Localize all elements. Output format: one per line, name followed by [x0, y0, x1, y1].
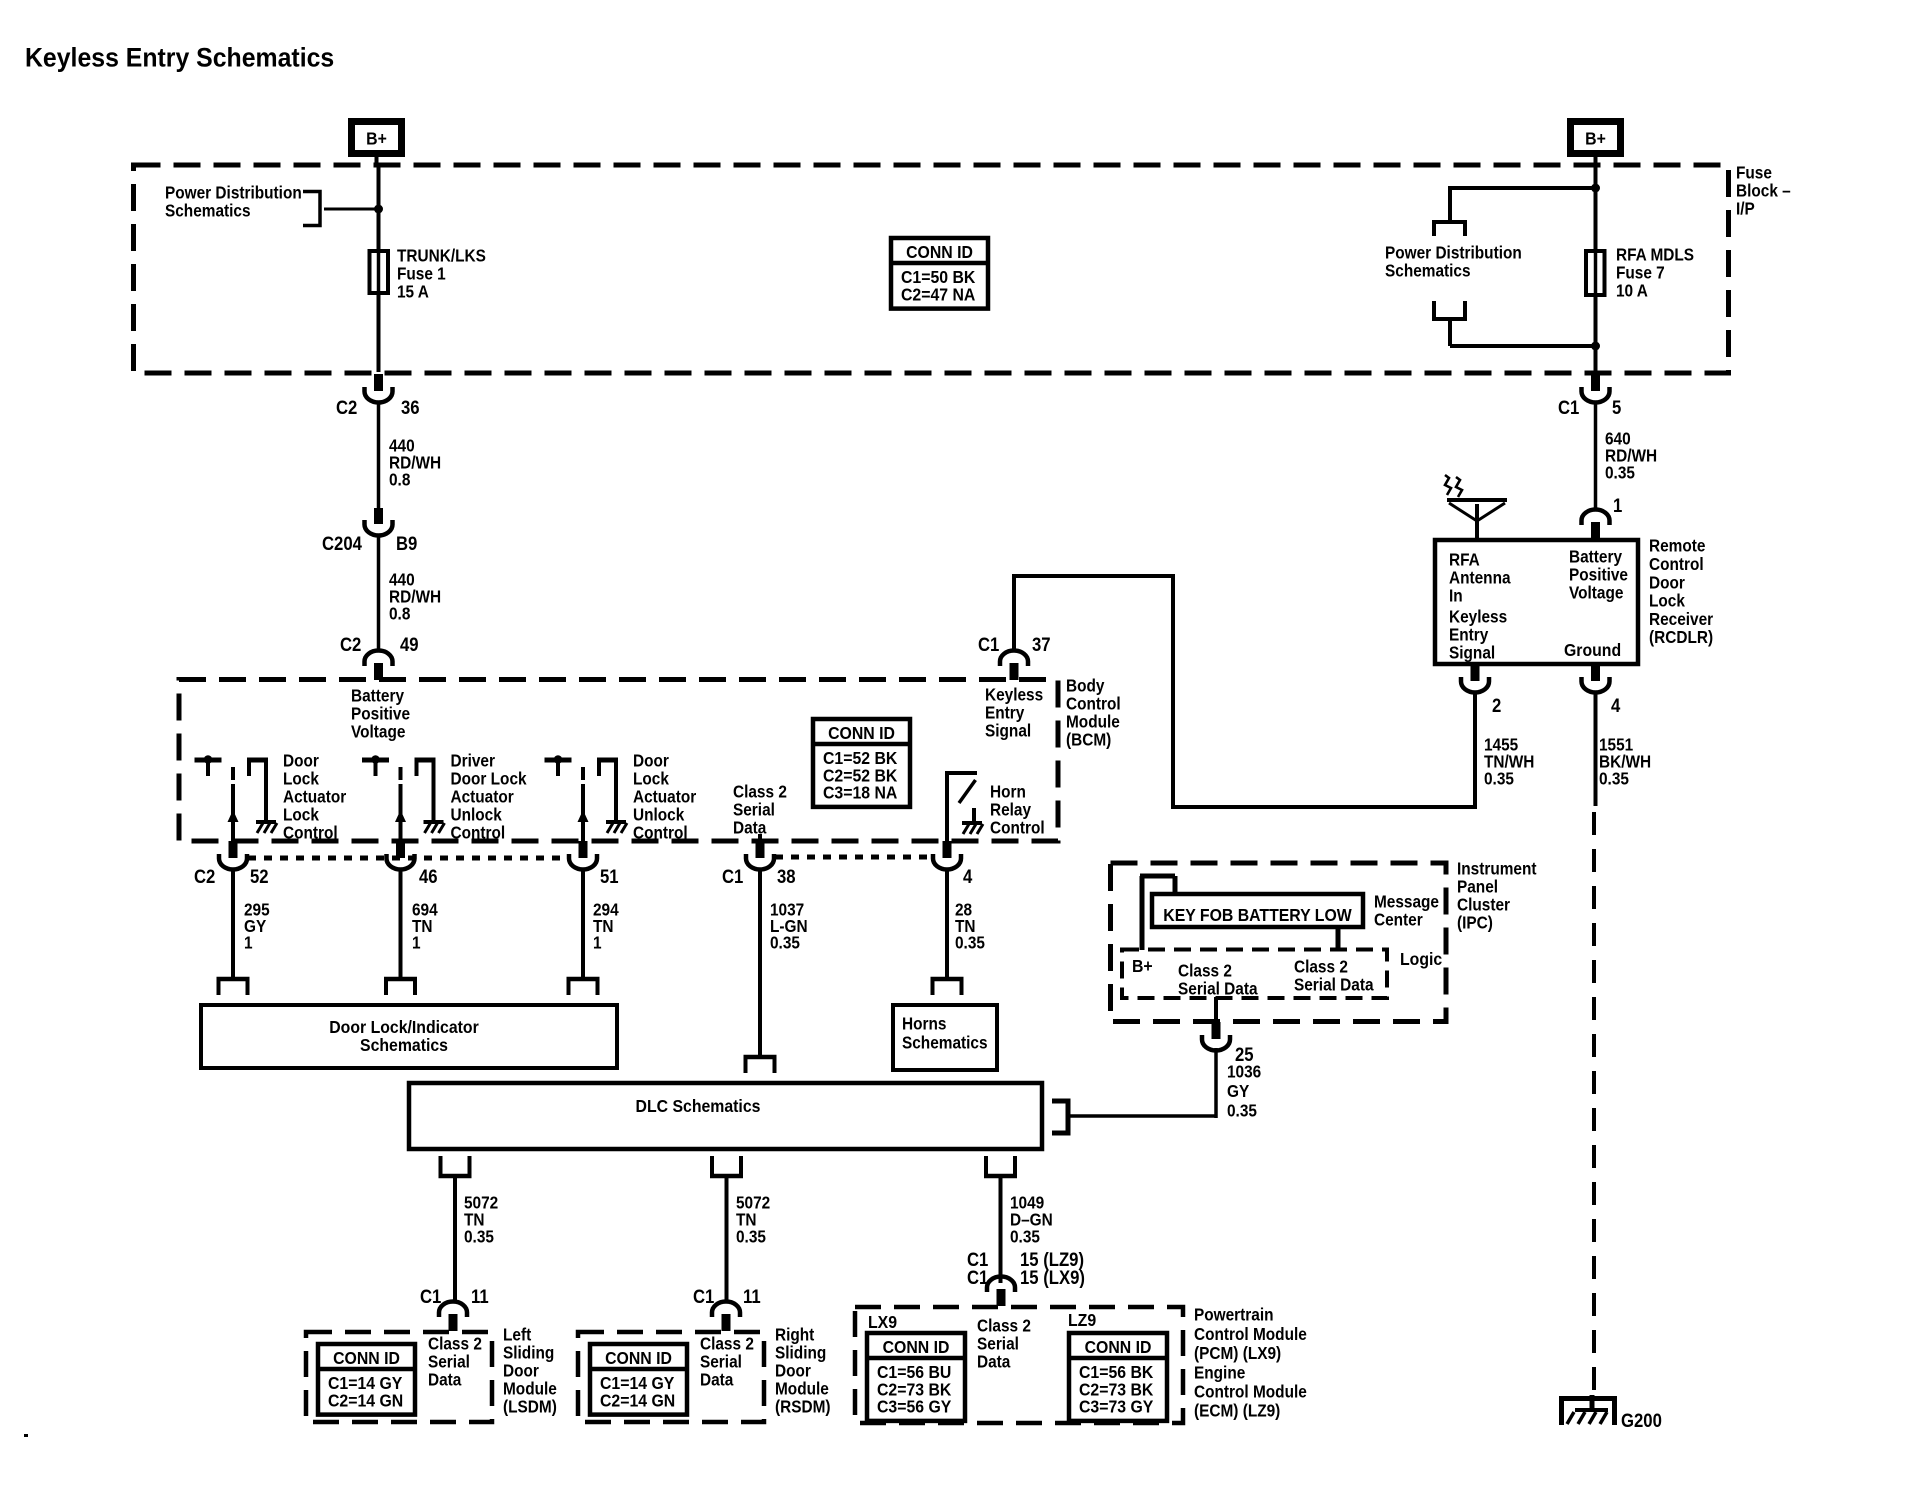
svg-text:4: 4	[1611, 695, 1620, 716]
label: 640 RD/WH 0.35	[1605, 430, 1631, 449]
label: Class 2 Serial Data (IPC left)	[1178, 962, 1232, 981]
CONN ID table: PCM LZ9	[1069, 1333, 1167, 1421]
svg-text:Signal: Signal	[985, 722, 1031, 741]
connector C1 pin 37 (BCM keyless entry signal)	[1010, 663, 1019, 680]
svg-text:Block –: Block –	[1736, 182, 1791, 201]
svg-text:1036: 1036	[1227, 1063, 1261, 1082]
svg-text:Instrument: Instrument	[1457, 860, 1537, 879]
svg-text:Voltage: Voltage	[1569, 584, 1623, 603]
title: Keyless Entry Schematics	[25, 44, 334, 73]
svg-text:C3=56 GY: C3=56 GY	[877, 1397, 952, 1417]
svg-text:GY: GY	[1227, 1082, 1249, 1101]
wire: B+ right to fuse block	[1594, 155, 1598, 167]
wire 1036 GY 0.35 horizontal run	[1070, 1114, 1216, 1118]
horn relay control switch (internal, pin 4)	[945, 771, 949, 842]
wire: IPC class 2 serial data down	[1214, 997, 1218, 1022]
label: 1455 TN/WH 0.35	[1484, 736, 1518, 755]
wire: branch from power distribution (right) lower	[1448, 319, 1452, 346]
svg-text:Logic: Logic	[1400, 949, 1442, 969]
svg-text:0.35: 0.35	[1010, 1228, 1040, 1247]
svg-text:1: 1	[1613, 495, 1622, 516]
svg-text:C1: C1	[722, 866, 743, 887]
svg-text:Entry: Entry	[1449, 626, 1489, 645]
CONN ID table: RSDM	[590, 1344, 687, 1415]
CONN ID table: fuse block (C1=50 BK / C2=47 NA)	[891, 238, 988, 309]
door lock actuator lock control driver (internal, pin 52)	[195, 758, 222, 763]
wire: branch to power distribution (right) upper	[1450, 186, 1596, 190]
svg-text:Door: Door	[283, 752, 319, 771]
svg-text:Class 2: Class 2	[1294, 958, 1348, 977]
svg-text:C1: C1	[420, 1286, 441, 1307]
svg-text:Lock: Lock	[283, 770, 320, 789]
connector C2 pin 52 (BCM)	[229, 841, 238, 858]
connector C1 boundary dotted line	[775, 855, 930, 860]
wire: fuse 7 to fuse block edge	[1594, 295, 1598, 372]
PCM/ECM dashed boundary box	[855, 1307, 1183, 1423]
svg-text:46: 46	[419, 866, 438, 887]
connector C1 pin 5 (fuse block output right)	[1591, 374, 1600, 391]
RSDM dashed boundary box	[578, 1332, 764, 1422]
Door Lock/Indicator Schematics reference box	[201, 1005, 617, 1068]
label: Class 2 Serial Data (PCM)	[977, 1317, 1031, 1336]
svg-text:Actuator: Actuator	[450, 788, 514, 807]
Instrument Panel Cluster dashed boundary box	[1111, 863, 1447, 1022]
door lock actuator unlock control driver (internal, pin 51)	[545, 758, 572, 763]
svg-text:Fuse 1: Fuse 1	[397, 265, 446, 284]
svg-text:(RCDLR): (RCDLR)	[1649, 628, 1713, 647]
svg-text:Schematics: Schematics	[360, 1035, 448, 1055]
svg-text:0.35: 0.35	[736, 1228, 766, 1247]
Fuse Block - I/P dashed boundary box	[134, 165, 1729, 373]
svg-text:C1: C1	[967, 1267, 988, 1288]
svg-text:37: 37	[1032, 634, 1051, 655]
svg-text:(RSDM): (RSDM)	[775, 1398, 831, 1417]
message center display box KEY FOB BATTERY LOW	[1152, 894, 1363, 927]
node: junction dot on left B+ feed	[374, 205, 383, 214]
svg-text:Control: Control	[1649, 555, 1704, 574]
svg-text:Actuator: Actuator	[283, 788, 347, 807]
wire 640 RD/WH 0.35	[1594, 404, 1598, 510]
radio wave squiggles	[1445, 475, 1451, 495]
label: 28 TN 0.35	[955, 901, 972, 920]
svg-text:Data: Data	[733, 819, 767, 838]
svg-text:Serial Data: Serial Data	[1178, 980, 1258, 999]
label: Class 2 Serial Data (RSDM)	[700, 1335, 754, 1354]
label: 440 RD/WH 0.8 (lower)	[389, 571, 415, 590]
svg-text:Fuse: Fuse	[1736, 164, 1772, 183]
BCM Body Control Module dashed boundary box	[179, 680, 1058, 842]
connector pin 4 (RCDLR ground)	[1591, 664, 1600, 681]
connector C1 pin 38 (BCM)	[756, 841, 765, 858]
svg-text:CONN ID: CONN ID	[828, 723, 895, 743]
svg-text:Ground: Ground	[1564, 640, 1621, 660]
svg-text:C3=18 NA: C3=18 NA	[823, 783, 897, 803]
svg-text:KEY FOB BATTERY LOW: KEY FOB BATTERY LOW	[1163, 905, 1351, 925]
connector C204 pin B9 (inline)	[374, 508, 383, 524]
wire: B+ left to fuse block	[375, 155, 379, 167]
label: Body Control Module (BCM)	[1066, 677, 1105, 696]
svg-text:Control: Control	[633, 824, 688, 843]
svg-text:(IPC): (IPC)	[1457, 914, 1493, 933]
svg-text:C2=14 GN: C2=14 GN	[600, 1390, 675, 1410]
svg-text:Control: Control	[450, 824, 505, 843]
wire 28 TN 0.35 from pin 4	[945, 871, 949, 979]
wire 5072 TN 0.35 (right) from DLC	[710, 1174, 743, 1179]
wire: stub to power distribution bracket (left)	[324, 208, 379, 211]
label: Keyless Entry Signal (BCM)	[985, 686, 1043, 705]
svg-text:B+: B+	[1585, 129, 1606, 149]
svg-text:Voltage: Voltage	[351, 723, 405, 742]
svg-text:Control: Control	[1066, 695, 1121, 714]
svg-text:Data: Data	[977, 1353, 1011, 1372]
off-page bracket into Door Lock box (wire 694)	[384, 977, 417, 982]
svg-text:Serial: Serial	[733, 801, 775, 820]
CONN ID table: BCM (C1=52 BK / C2=52 BK / C3=18 NA)	[813, 719, 910, 807]
svg-text:Module: Module	[1066, 713, 1120, 732]
svg-text:B+: B+	[366, 129, 387, 149]
svg-text:38: 38	[777, 866, 796, 887]
svg-text:Powertrain: Powertrain	[1194, 1306, 1274, 1325]
label: B+ (IPC)	[1132, 956, 1153, 976]
svg-text:Sliding: Sliding	[775, 1344, 826, 1363]
label: Power Distribution Schematics (left)	[165, 184, 302, 203]
wire 1049 D-GN 0.35 from DLC	[984, 1174, 1017, 1179]
svg-text:Class 2: Class 2	[733, 783, 787, 802]
svg-text:TRUNK/LKS: TRUNK/LKS	[397, 247, 486, 266]
connector pin 46 (BCM)	[396, 841, 405, 858]
svg-text:Door Lock: Door Lock	[450, 770, 527, 789]
connector C2 pin 36 (fuse block output)	[374, 374, 383, 391]
DLC Schematics reference box	[409, 1083, 1042, 1149]
label: Instrument Panel Cluster (IPC)	[1457, 860, 1537, 879]
LSDM dashed boundary box	[306, 1332, 492, 1422]
svg-text:(ECM) (LZ9): (ECM) (LZ9)	[1194, 1402, 1280, 1421]
svg-text:(BCM): (BCM)	[1066, 731, 1111, 750]
svg-text:Door: Door	[775, 1362, 811, 1381]
B+ battery positive terminal (left)	[352, 122, 402, 154]
svg-text:Door: Door	[503, 1362, 539, 1381]
svg-text:Control Module: Control Module	[1194, 1383, 1307, 1402]
svg-text:Class 2: Class 2	[700, 1335, 754, 1354]
connector pin 2 (RCDLR keyless entry signal)	[1471, 664, 1480, 681]
label: Class 2 Serial Data (BCM pin 38)	[733, 783, 787, 802]
label: LZ9	[1068, 1310, 1096, 1330]
svg-text:Remote: Remote	[1649, 537, 1705, 556]
svg-text:C2: C2	[336, 397, 357, 418]
svg-text:52: 52	[250, 866, 269, 887]
svg-text:C204: C204	[322, 533, 362, 554]
antenna symbol on RCDLR	[1475, 504, 1479, 538]
svg-text:Lock: Lock	[633, 770, 670, 789]
svg-text:Battery: Battery	[1569, 548, 1623, 567]
connector pin 51 (BCM)	[579, 841, 588, 858]
wire: IPC B+ feed to message center	[1140, 876, 1145, 950]
svg-text:Lock: Lock	[1649, 592, 1686, 611]
door lock actuator unlock control driver (internal, pin 46)	[362, 758, 389, 763]
svg-text:0.35: 0.35	[1227, 1102, 1257, 1121]
wire 440 RD/WH 0.8 (upper)	[377, 404, 381, 508]
label: 694 TN 1	[412, 901, 438, 920]
wire 694 TN 1 from pin 46	[399, 871, 403, 979]
label: Class 2 Serial Data (IPC right)	[1294, 958, 1348, 977]
svg-text:Battery: Battery	[351, 687, 405, 706]
B+ battery positive terminal (right)	[1571, 122, 1621, 154]
svg-text:Module: Module	[503, 1380, 557, 1399]
svg-text:LZ9: LZ9	[1068, 1310, 1096, 1330]
off-page bracket into Door Lock box (wire 295)	[217, 977, 250, 982]
CONN ID table: PCM LX9	[867, 1333, 965, 1421]
wire 440 RD/WH 0.8 (lower)	[377, 537, 381, 650]
connector C1 pin 11 (LSDM)	[449, 1314, 458, 1331]
svg-text:Right: Right	[775, 1326, 815, 1345]
label: Battery Positive Voltage / Ground (RCDLR pins)	[1569, 548, 1623, 567]
svg-text:15 (LX9): 15 (LX9)	[1020, 1267, 1085, 1288]
label: LX9	[868, 1312, 897, 1332]
wire: keyless entry signal BCM pin 37 to RCDLR pin 2	[1012, 576, 1016, 650]
label: RFA MDLS Fuse 7 10 A	[1616, 246, 1694, 265]
svg-text:Class 2: Class 2	[1178, 962, 1232, 981]
svg-text:Keyless: Keyless	[985, 686, 1043, 705]
svg-text:LX9: LX9	[868, 1312, 897, 1332]
label: Fuse Block - I/P	[1736, 164, 1772, 183]
wire 1037 L-GN 0.35 from pin 38	[758, 871, 762, 1059]
svg-text:Antenna: Antenna	[1449, 569, 1511, 588]
svg-text:Door: Door	[633, 752, 669, 771]
svg-text:Lock: Lock	[283, 806, 320, 825]
svg-text:Power Distribution: Power Distribution	[1385, 244, 1522, 263]
svg-text:Schematics: Schematics	[902, 1034, 988, 1053]
svg-text:(LSDM): (LSDM)	[503, 1398, 557, 1417]
svg-text:Engine: Engine	[1194, 1363, 1245, 1382]
label: Left Sliding Door Module (LSDM)	[503, 1326, 532, 1345]
label: Logic	[1400, 949, 1442, 969]
svg-text:Center: Center	[1374, 911, 1423, 930]
svg-text:Schematics: Schematics	[1385, 262, 1471, 281]
RCDLR module box	[1435, 540, 1638, 664]
off-page bracket: power distribution upper (right)	[1434, 222, 1465, 236]
svg-text:51: 51	[600, 866, 619, 887]
ground G200 symbol	[1562, 1399, 1615, 1426]
fuse F7 RFA MDLS 10A	[1586, 251, 1605, 295]
svg-text:Schematics: Schematics	[165, 202, 251, 221]
wire 1455 TN/WH 0.35 from RCDLR pin 2	[1473, 694, 1477, 809]
svg-text:C2=14 GN: C2=14 GN	[328, 1390, 403, 1410]
label: 5072 TN 0.35 (right)	[736, 1194, 770, 1213]
Horns Schematics reference box	[893, 1005, 997, 1070]
svg-text:Left: Left	[503, 1326, 532, 1345]
svg-text:15 A: 15 A	[397, 283, 429, 302]
off-page bracket into Horns box (wire 28)	[931, 977, 964, 982]
connector pin 1 (RCDLR battery positive)	[1591, 522, 1600, 539]
svg-text:CONN ID: CONN ID	[906, 242, 973, 262]
label: G200	[1621, 1410, 1662, 1431]
svg-text:Class 2: Class 2	[977, 1317, 1031, 1336]
svg-text:Serial: Serial	[977, 1335, 1019, 1354]
node: junction dot lower on right B+ feed	[1591, 342, 1600, 351]
node: junction dot upper on right B+ feed	[1591, 184, 1600, 193]
svg-text:Data: Data	[428, 1371, 462, 1390]
svg-text:C1: C1	[1558, 397, 1579, 418]
svg-text:10 A: 10 A	[1616, 282, 1648, 301]
svg-text:Receiver: Receiver	[1649, 610, 1714, 629]
connector C1 pin 15 (PCM/ECM)	[997, 1289, 1006, 1306]
label: 440 RD/WH 0.8 (upper)	[389, 437, 415, 456]
svg-text:Horns: Horns	[902, 1015, 946, 1034]
svg-text:CONN ID: CONN ID	[605, 1348, 672, 1368]
svg-text:RFA: RFA	[1449, 551, 1480, 570]
wire: message center to logic	[1336, 927, 1341, 950]
svg-text:1: 1	[593, 933, 602, 952]
label: Class 2 Serial Data (LSDM)	[428, 1335, 482, 1354]
svg-text:Control: Control	[990, 819, 1045, 838]
wire 294 TN 1 from pin 51	[581, 871, 585, 979]
svg-text:C2=47 NA: C2=47 NA	[901, 284, 975, 304]
svg-text:Positive: Positive	[351, 705, 410, 724]
label: 1037 L-GN 0.35	[770, 901, 804, 920]
svg-text:Cluster: Cluster	[1457, 896, 1511, 915]
svg-text:Control: Control	[283, 824, 338, 843]
svg-text:Fuse 7: Fuse 7	[1616, 264, 1665, 283]
svg-text:5: 5	[1612, 397, 1621, 418]
label: RFA Antenna In / Keyless Entry Signal (RCDLR pins)	[1449, 551, 1480, 570]
label: 1036 GY 0.35	[1235, 1044, 1254, 1065]
svg-text:RFA MDLS: RFA MDLS	[1616, 246, 1694, 265]
svg-text:Panel: Panel	[1457, 878, 1498, 897]
svg-text:C2: C2	[340, 634, 361, 655]
svg-text:Control Module: Control Module	[1194, 1325, 1307, 1344]
svg-text:0.35: 0.35	[1599, 770, 1629, 789]
svg-text:C1: C1	[978, 634, 999, 655]
svg-text:Entry: Entry	[985, 704, 1025, 723]
svg-text:G200: G200	[1621, 1410, 1662, 1431]
label: 295 GY 1	[244, 901, 270, 920]
internal wire: BCM pin 38 stub	[758, 834, 762, 842]
svg-text:0.35: 0.35	[1605, 464, 1635, 483]
label: TRUNK/LKS Fuse 1 15 A	[397, 247, 486, 266]
svg-text:(PCM) (LX9): (PCM) (LX9)	[1194, 1344, 1281, 1363]
wire: B+ left down to fuse 1	[377, 167, 381, 251]
svg-text:Class 2: Class 2	[428, 1335, 482, 1354]
label: Battery Positive Voltage (BCM)	[351, 687, 405, 706]
wire: fuse 1 to fuse block edge	[377, 293, 381, 372]
svg-text:1: 1	[412, 933, 421, 952]
wire 1551 BK/WH 0.35 from RCDLR pin 4	[1594, 694, 1598, 806]
label: Power Distribution Schematics (right)	[1385, 244, 1522, 263]
svg-text:Door: Door	[1649, 573, 1685, 592]
fuse F1 TRUNK/LKS 15A	[370, 251, 389, 293]
svg-text:CONN ID: CONN ID	[883, 1337, 950, 1357]
svg-text:0.35: 0.35	[955, 933, 985, 952]
connector pin 4 (BCM)	[943, 841, 952, 858]
svg-text:C3=73 GY: C3=73 GY	[1079, 1397, 1154, 1417]
label: 294 TN 1	[593, 901, 619, 920]
svg-text:I/P: I/P	[1736, 200, 1755, 219]
svg-text:1: 1	[244, 933, 253, 952]
svg-text:In: In	[1449, 587, 1463, 606]
svg-text:Horn: Horn	[990, 783, 1026, 802]
label: Message Center	[1374, 893, 1439, 912]
wire: B+ right down to fuse 7	[1594, 167, 1598, 251]
svg-text:B9: B9	[396, 533, 417, 554]
IPC logic dashed box	[1122, 950, 1387, 999]
svg-text:Message: Message	[1374, 893, 1439, 912]
wire 5072 TN 0.35 (left) from DLC	[439, 1174, 472, 1179]
CONN ID table: LSDM	[318, 1344, 415, 1415]
wire 1551 dashed continuation to G200	[1592, 812, 1596, 1397]
svg-text:0.35: 0.35	[1484, 770, 1514, 789]
wire 295 GY 1 from pin 52	[231, 871, 235, 979]
stray mark bottom left	[24, 1434, 28, 1437]
svg-text:Power Distribution: Power Distribution	[165, 184, 302, 203]
svg-text:Unlock: Unlock	[633, 806, 685, 825]
svg-text:Unlock: Unlock	[450, 806, 502, 825]
label: Remote Control Door Lock Receiver (RCDLR)	[1649, 537, 1705, 556]
svg-text:Serial: Serial	[428, 1353, 470, 1372]
svg-text:0.35: 0.35	[770, 933, 800, 952]
label: Horn Relay Control	[990, 783, 1026, 802]
DLC side tab connector	[1052, 1099, 1068, 1104]
off-page bracket into Door Lock box (wire 294)	[567, 977, 600, 982]
svg-text:B+: B+	[1132, 956, 1153, 976]
svg-text:CONN ID: CONN ID	[1085, 1337, 1152, 1357]
svg-text:36: 36	[401, 397, 420, 418]
svg-text:2: 2	[1492, 695, 1501, 716]
svg-text:0.8: 0.8	[389, 471, 410, 490]
label: Powertrain Control Module / Engine Control Module	[1194, 1306, 1274, 1325]
svg-text:C2: C2	[194, 866, 215, 887]
label: 1049 D-GN 0.35	[1010, 1194, 1044, 1213]
off-page bracket: power distribution lower (right)	[1434, 301, 1465, 319]
connector C2 boundary dotted line	[248, 856, 568, 861]
label: 5072 TN 0.35 (left)	[464, 1194, 498, 1213]
svg-text:Driver: Driver	[450, 752, 495, 771]
connector pin 25 (IPC)	[1212, 1022, 1221, 1039]
svg-text:DLC Schematics: DLC Schematics	[636, 1096, 761, 1116]
svg-text:Module: Module	[775, 1380, 829, 1399]
off-page bracket: power distribution (left)	[303, 192, 320, 226]
label: Right Sliding Door Module (RSDM)	[775, 1326, 815, 1345]
svg-text:Relay: Relay	[990, 801, 1032, 820]
svg-text:49: 49	[400, 634, 419, 655]
svg-text:Keyless Entry Schematics: Keyless Entry Schematics	[25, 44, 334, 73]
svg-text:Actuator: Actuator	[633, 788, 697, 807]
connector C1 pin 11 (RSDM)	[722, 1314, 731, 1331]
svg-text:Sliding: Sliding	[503, 1344, 554, 1363]
svg-text:C1: C1	[693, 1286, 714, 1307]
svg-text:4: 4	[963, 866, 972, 887]
svg-text:Body: Body	[1066, 677, 1105, 696]
svg-text:11: 11	[471, 1286, 489, 1307]
svg-text:Positive: Positive	[1569, 566, 1628, 585]
svg-text:11: 11	[743, 1286, 761, 1307]
svg-text:Signal: Signal	[1449, 644, 1495, 663]
svg-text:Keyless: Keyless	[1449, 608, 1507, 627]
svg-text:CONN ID: CONN ID	[333, 1348, 400, 1368]
svg-text:Data: Data	[700, 1371, 734, 1390]
off-page bracket into DLC box (wire 1037)	[744, 1055, 777, 1060]
svg-text:0.35: 0.35	[464, 1228, 494, 1247]
svg-text:Serial: Serial	[700, 1353, 742, 1372]
label: 1551 BK/WH 0.35	[1599, 736, 1633, 755]
svg-text:0.8: 0.8	[389, 605, 410, 624]
svg-text:Serial Data: Serial Data	[1294, 976, 1374, 995]
connector C2 pin 49 (BCM battery feed)	[374, 663, 383, 680]
